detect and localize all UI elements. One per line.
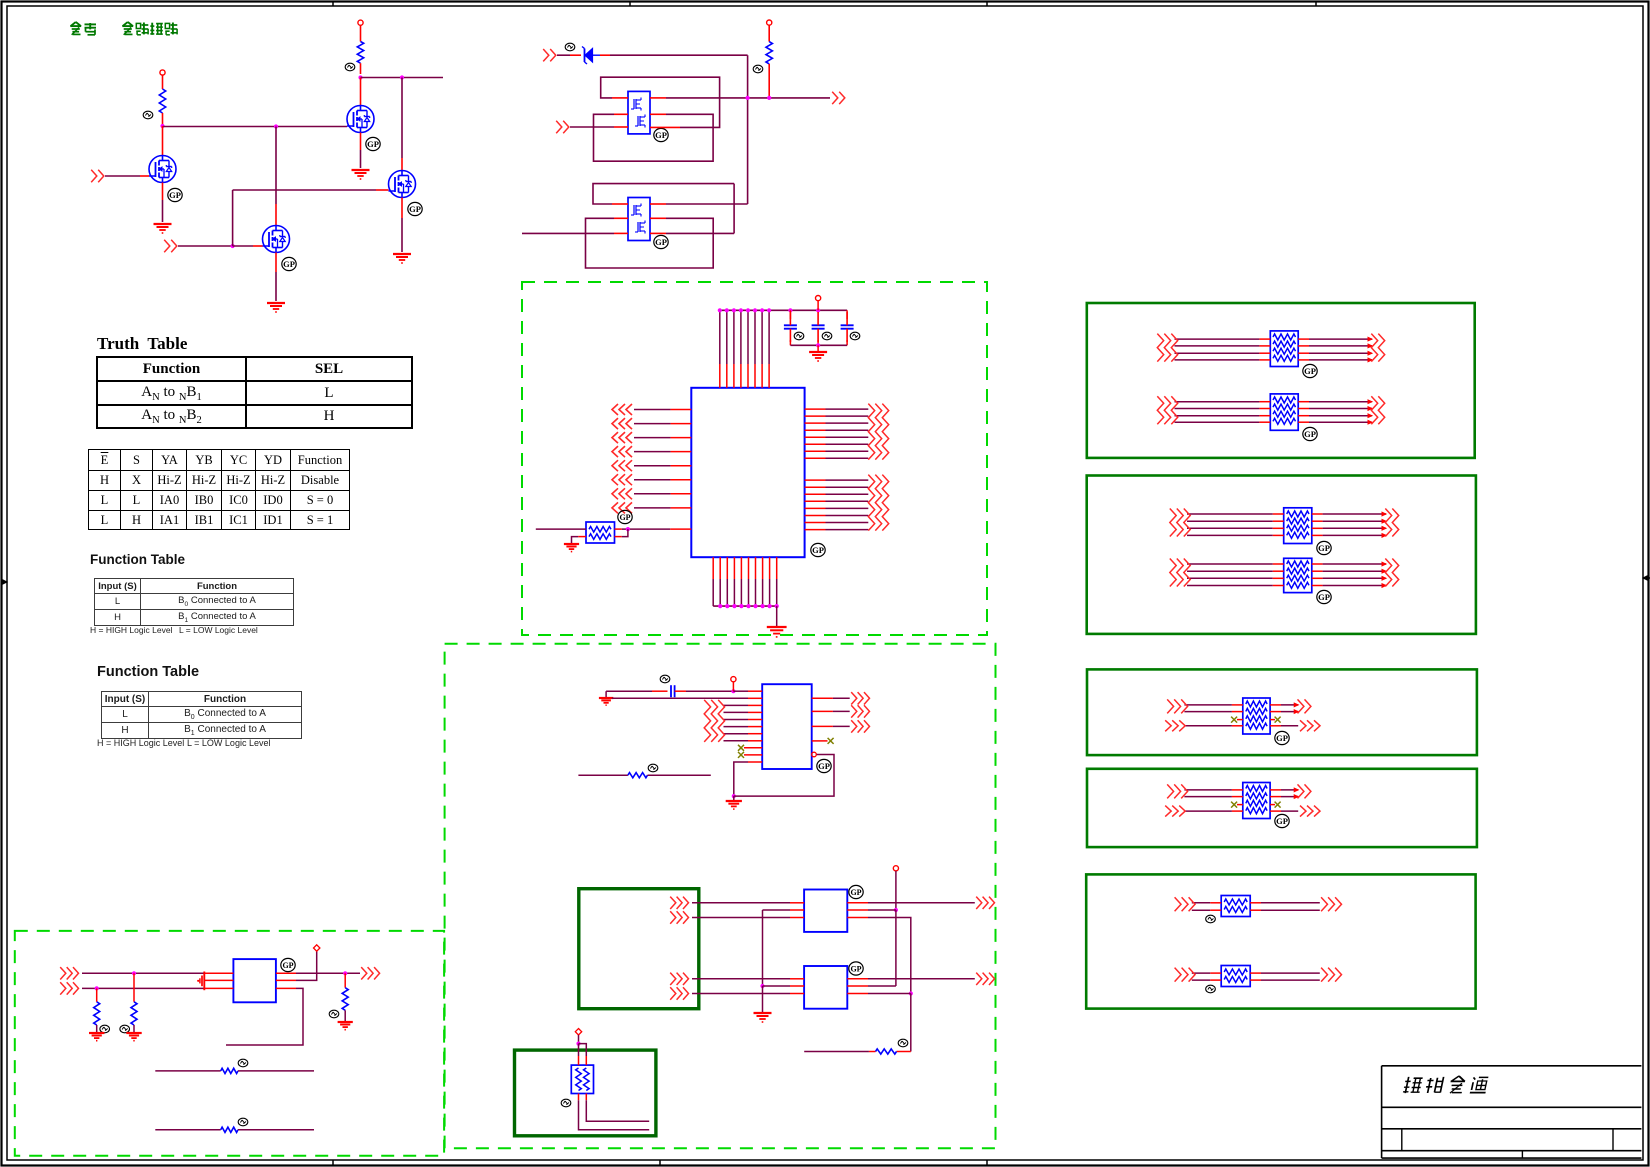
wire bus2 [361, 77, 444, 79]
power bus right [895, 871, 897, 910]
svg-text:GP: GP [655, 130, 667, 140]
U4 left markers [704, 700, 710, 742]
ground G10 [762, 986, 764, 1012]
wire X2 out3 [847, 993, 868, 995]
RP2 wires left [1175, 338, 1260, 340]
resistor pack RP8 [1221, 896, 1250, 917]
U2 row1 left loop [612, 203, 628, 205]
wire RP1 row2 left to gnd [578, 536, 586, 538]
dual FET package U2 [628, 198, 650, 241]
ground G12 [126, 1032, 141, 1034]
node N7 [767, 96, 771, 100]
output arrow U4-1 [851, 692, 857, 704]
RP5 wires left [1187, 563, 1273, 565]
green box 3 with resistor pack RP6 [1087, 669, 1477, 755]
label C2 [822, 332, 832, 340]
resistor pack RP5 [1284, 558, 1312, 592]
wire U5 out3 loop [276, 987, 296, 989]
wire U5 in1 [82, 972, 204, 974]
resistor pack RP3 [1270, 394, 1298, 430]
top bus wire [720, 309, 847, 311]
wire X2 out2 [847, 985, 868, 987]
svg-text:GP: GP [169, 190, 181, 200]
node N13 [909, 991, 913, 995]
svg-text:GP: GP [282, 961, 293, 970]
svg-text:GP: GP [1318, 543, 1330, 553]
resistor pack RP2 [1270, 331, 1298, 367]
node N11 [760, 984, 764, 988]
green box 1 [1087, 303, 1475, 458]
label GP X1 [849, 885, 863, 898]
node N8 [626, 527, 630, 531]
wire U5 out1 [276, 972, 296, 974]
output arrow X1 [976, 897, 982, 909]
wire M2 source [275, 253, 277, 273]
dark green box A [579, 889, 699, 1009]
wire U4 pin2 [612, 697, 748, 699]
svg-text:GP: GP [367, 139, 379, 149]
resistor pack RP10 [571, 1065, 593, 1093]
wire diode net down [747, 55, 749, 204]
wire N13 down to R5 [910, 994, 912, 1052]
label R9 [238, 1059, 248, 1067]
wire U1 row3 input [570, 126, 614, 128]
label GP M1 [168, 188, 182, 201]
IC X2 body [804, 966, 847, 1009]
wire M2 drain [275, 127, 277, 205]
RP4 wires right [1312, 513, 1323, 515]
zone tick top 3 [986, 1, 988, 6]
Function Table 2 [97, 664, 199, 680]
green title text 公版線路 [123, 22, 128, 26]
power terminal P4 [816, 296, 821, 301]
input port arrow 1 [91, 170, 97, 182]
capacitor C4 [606, 690, 652, 692]
U3 top pin wires [719, 364, 721, 388]
ground G7 [767, 626, 787, 628]
zone tick bottom 2 [659, 1160, 661, 1165]
ground G8 [605, 691, 607, 697]
wire M4 drain [401, 78, 403, 159]
ground G13 [338, 1021, 353, 1023]
RP5 left markers [1170, 559, 1176, 587]
label GP U4 [817, 759, 831, 772]
RP5 right markers [1385, 559, 1391, 587]
label R5 [898, 1039, 908, 1047]
power terminal P5 [731, 677, 736, 682]
zone tick top 1 [332, 1, 334, 6]
label C3 [850, 332, 860, 340]
inversion bubble pin [812, 752, 817, 757]
U1 row1 right wire [650, 97, 666, 99]
U3 right markers group1 [868, 404, 874, 460]
resistor R2 [360, 25, 362, 41]
wire bus to ground [776, 606, 778, 626]
dashed box center [522, 282, 987, 635]
RP4 right markers [1385, 509, 1391, 537]
label GP X2 [849, 962, 863, 975]
svg-text:GP: GP [812, 545, 824, 555]
wire X1 in3 [692, 917, 790, 919]
label GP RP4 [1317, 541, 1331, 554]
svg-text:GP: GP [283, 259, 295, 269]
U2 row2 loop [614, 217, 628, 219]
output arrow U5 [361, 967, 367, 979]
label GP RP1 [618, 510, 632, 523]
U3 right pin wires group1 [805, 408, 826, 410]
svg-text:GP: GP [655, 237, 667, 247]
input arrow U5-2 [60, 982, 66, 994]
label RP10 [561, 1099, 571, 1107]
ground G3 [352, 169, 370, 171]
wire P7 branch to pin2 [579, 1044, 587, 1056]
Truth Table [96, 356, 413, 429]
resistor R4 on open wire [578, 774, 628, 776]
U4 pin9 no connect [744, 747, 762, 749]
wire U5 in2 [82, 987, 204, 989]
RP4 left markers [1170, 509, 1176, 537]
node cap gnd [816, 343, 820, 347]
node N4 [358, 75, 362, 79]
node N5 [400, 75, 404, 79]
resistor R7 [133, 973, 135, 1002]
cap bottom bus [790, 344, 847, 346]
wire M3 source [360, 133, 362, 151]
wire RP10 pin1 out [578, 1094, 580, 1101]
label GP M3 [366, 137, 380, 150]
wire X2 in1 [692, 978, 790, 980]
transistor M2 [263, 226, 290, 253]
green box 5 [1086, 874, 1475, 1008]
label GP U2 [654, 235, 668, 248]
ground G6 [564, 543, 579, 545]
resistor R1 [162, 75, 164, 89]
input port arrow 3 [543, 49, 549, 61]
label R1 [143, 111, 153, 119]
U4 right pin4 no connect [812, 740, 828, 742]
node N15 [132, 971, 136, 975]
loop wire right side [734, 755, 834, 797]
U2 row1 right wire [650, 203, 666, 205]
label GP U3 [811, 543, 825, 556]
node N10 [732, 794, 736, 798]
svg-text:GP: GP [1304, 366, 1316, 376]
left bias bus [763, 909, 791, 911]
zone tick bottom 1 [332, 1160, 334, 1165]
ground G2 [267, 302, 285, 304]
green box 2 [1087, 476, 1476, 634]
resistor R3 [768, 25, 770, 41]
zone tick top 2 [629, 1, 631, 6]
label GP M4 [408, 202, 422, 215]
wire RP10 pin2 out [585, 1094, 587, 1101]
port arrows box A out3 [670, 973, 676, 985]
ground G9 [733, 796, 735, 800]
bus short symbol [203, 972, 205, 991]
port arrows box A out4 [670, 987, 676, 999]
dashed box bottom left [15, 931, 444, 1156]
output port arrow 1 [832, 92, 838, 104]
node N1 [160, 124, 164, 128]
title block company name (pseudo CJK italic) [1403, 1076, 1489, 1093]
wire M1 source [162, 183, 164, 201]
zone tick left [1, 581, 7, 583]
U4 pins 3-8 wires [724, 704, 749, 706]
power terminal P8 [314, 945, 320, 951]
wire bus1 [163, 126, 348, 128]
resistor R10 on open wire [155, 1129, 220, 1131]
power terminal P7 [575, 1029, 581, 1035]
power terminal P3 [767, 20, 772, 25]
wire M4 source [401, 198, 403, 219]
power terminal P2 [358, 20, 363, 25]
zone tick top 4 [1315, 1, 1317, 6]
svg-text:GP: GP [619, 513, 630, 522]
ground G1 [154, 223, 172, 225]
node N16 [95, 986, 99, 990]
ground G4 [393, 253, 411, 255]
resistor pack RP1 [586, 522, 615, 543]
port arrows box A out2 [670, 911, 676, 923]
wire X2 in3 [692, 993, 790, 995]
resistor R6 [96, 988, 98, 1001]
capacitor C1 [789, 310, 791, 319]
node N12 [894, 908, 898, 912]
label GP U5 [281, 958, 295, 971]
capacitor C3 [846, 310, 848, 319]
transistor M1 [162, 126, 164, 156]
dashed box bottom middle [445, 644, 996, 1149]
U3 right pin wires group2 [805, 479, 826, 481]
label C1 [794, 332, 804, 340]
node cap bus b [816, 308, 820, 312]
node N2 [274, 124, 278, 128]
svg-text:GP: GP [850, 888, 861, 897]
node N17 [343, 971, 347, 975]
wire RP1 row2 right loop [615, 536, 622, 538]
U1 row2 loop [614, 113, 628, 115]
title block frame [1382, 1065, 1642, 1067]
node N3 [231, 244, 235, 248]
green box 4 with resistor pack RP7 [1087, 769, 1477, 847]
svg-text:GP: GP [818, 761, 830, 771]
RP3 right markers [1371, 396, 1377, 424]
resistor R9 on open wire [155, 1070, 220, 1072]
wire U2 row3 left [522, 232, 614, 234]
RP3 wires right [1298, 401, 1309, 403]
transistor M4 [389, 171, 416, 198]
label GP RP3 [1303, 427, 1317, 440]
zener diode D1 [584, 49, 586, 63]
transistor M3 [347, 106, 374, 133]
wire M1 gate [105, 175, 140, 177]
RP3 wires left [1175, 401, 1260, 403]
output arrow U4-2 [851, 705, 857, 717]
wire M3 drain [360, 78, 362, 106]
node N14 [576, 1042, 580, 1046]
Select table [88, 449, 350, 530]
U3 right markers group2 [868, 475, 874, 531]
label R4 [648, 764, 658, 772]
label R3 [753, 65, 763, 73]
RP3 left markers [1157, 396, 1163, 424]
IC U3 body [691, 388, 804, 557]
bottom bus wire [713, 605, 777, 607]
wire diode to net [600, 54, 610, 56]
power terminal P1 [160, 70, 165, 75]
svg-text:GP: GP [1276, 816, 1288, 826]
RP5 wires right [1312, 563, 1323, 565]
output arrow U4-3 [851, 720, 857, 732]
svg-text:GP: GP [1276, 733, 1288, 743]
capacitor C2 [812, 324, 825, 326]
label R8 [329, 1010, 339, 1018]
wire M2 gate [178, 245, 233, 247]
IC U5 body [233, 959, 276, 1002]
svg-text:GP: GP [850, 965, 861, 974]
zone tick bottom 3 [986, 1160, 988, 1165]
RP2 right markers [1371, 334, 1377, 362]
wire M3 gate from bus1 [346, 126, 348, 128]
input port arrow 2 [164, 240, 170, 252]
label GP U1 [654, 128, 668, 141]
dual FET package U1 [628, 91, 650, 133]
U4 pin10 no connect [744, 754, 762, 756]
wire RP1 row1 left [536, 528, 586, 530]
wire U2 row3 right [650, 232, 666, 234]
wire X1 out3 down [847, 917, 868, 919]
resistor pack RP4 [1284, 508, 1312, 544]
label GP M2 [282, 257, 296, 270]
label R6 [100, 1025, 110, 1033]
title block divider 2 [1612, 1129, 1614, 1151]
wire X2 out1 [847, 978, 868, 980]
wire X1 out1 [847, 902, 868, 904]
wire N3 up to M4 gate [232, 190, 234, 246]
U3 left pin markers [612, 404, 618, 415]
ground G11 [89, 1032, 104, 1034]
wire X1 out2 [847, 909, 868, 911]
port arrows box A out1 [670, 897, 676, 909]
svg-text:GP: GP [409, 204, 421, 214]
output arrow X2 [976, 973, 982, 985]
label GP RP2 [1303, 364, 1317, 377]
Function Table 1 [90, 552, 185, 567]
title block divider 1 [1401, 1129, 1403, 1151]
node cap bus a [788, 308, 792, 312]
U3 bottom pin wires [712, 557, 714, 579]
node N9 [731, 689, 735, 693]
wire C4 to U4 pin1 [675, 690, 686, 692]
RP2 left markers [1157, 334, 1163, 362]
label D1 [565, 43, 575, 51]
U1 row1 left loop [612, 97, 628, 99]
RP2 wires right [1298, 338, 1309, 340]
Truth Table title [97, 334, 187, 354]
U3 left pin wires [634, 409, 671, 411]
green title text 参考 [71, 22, 76, 26]
power terminal P6 [893, 866, 898, 871]
wire U4 out1 [812, 697, 833, 699]
node N6 [746, 96, 750, 100]
wire U4 out2 [812, 710, 833, 712]
svg-text:GP: GP [1304, 429, 1316, 439]
wire U5 out2 to power [276, 979, 296, 981]
resistor R8 [344, 973, 346, 987]
label GP RP5 [1317, 590, 1331, 603]
dark green box B [515, 1050, 656, 1136]
resistor R5 [897, 1051, 911, 1053]
wire X1 in1 [692, 902, 790, 904]
IC U4 body [762, 684, 812, 769]
zone tick right [1643, 577, 1650, 579]
wire P7 to RP10 pin1 [578, 1044, 580, 1056]
label R7 [120, 1025, 130, 1033]
resistor pack RP9 [1221, 966, 1250, 987]
input port arrow 4 [556, 121, 562, 133]
wire to diode [557, 54, 570, 56]
label C4 [660, 675, 670, 683]
wire RP1 row1 right [615, 528, 622, 530]
RP4 wires left [1187, 513, 1273, 515]
label R10 [238, 1118, 248, 1126]
wire U4 pin11 loop [748, 761, 762, 763]
wire U5 pin rows [204, 972, 233, 974]
svg-text:GP: GP [1318, 592, 1330, 602]
wire U4 out3 [812, 725, 833, 727]
IC X1 body [804, 890, 847, 932]
ground G5 [817, 345, 819, 351]
title block divider 3 [1521, 1151, 1523, 1158]
label R2 [345, 63, 355, 71]
input arrow U5-1 [60, 967, 66, 979]
